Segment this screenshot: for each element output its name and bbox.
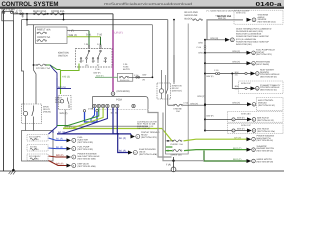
svg-text:B/L (F): B/L (F) <box>56 146 63 149</box>
wire blue from pin 94.5 <box>91 108 95 122</box>
svg-text:SWITCH: SWITCH <box>58 54 68 57</box>
junction r5-r6 <box>231 73 233 75</box>
wire purge feed <box>166 140 174 142</box>
svg-text:(SECTION F/P1): (SECTION F/P1) <box>78 148 94 151</box>
wire W/B from smart relay to harness <box>65 110 148 127</box>
svg-text:B/R (F): B/R (F) <box>56 154 64 157</box>
EGI fuse box outline <box>22 131 54 162</box>
fuse EGI COMPR 15A dashed cell <box>27 135 48 142</box>
junction after MAIN fuse <box>47 13 49 15</box>
inline connector 10 <box>232 129 235 132</box>
svg-text:G/Y (F): G/Y (F) <box>64 125 72 128</box>
svg-text:(SECTION 08-10): (SECTION 08-10) <box>260 76 277 79</box>
svg-text:PCM: PCM <box>116 99 122 102</box>
svg-text:MAIN 100A: MAIN 100A <box>33 10 47 13</box>
svg-text:(SECTION F/P1): (SECTION F/P1) <box>78 141 94 144</box>
main relay coil wires <box>24 104 26 131</box>
svg-text:B/L (F): B/L (F) <box>56 138 63 141</box>
wire r6 <box>232 74 250 89</box>
bus A drop x169.4 (to fuse block) <box>167 20 169 85</box>
wire green diagonal from fuse <box>46 65 60 70</box>
svg-text:F-01: F-01 <box>17 10 23 13</box>
svg-text:B/W (F): B/W (F) <box>191 102 199 105</box>
svg-text:THIS CIRCUIT: THIS CIRCUIT <box>137 127 151 130</box>
ground lead junction <box>172 160 174 162</box>
arrow r4 <box>247 61 252 65</box>
smart relay contact <box>68 98 70 109</box>
svg-text:PURGE 7.5A: PURGE 7.5A <box>171 143 184 146</box>
svg-text:(SECTION 04-16): (SECTION 04-16) <box>258 104 275 107</box>
main relay coil <box>23 111 27 115</box>
fuse box (upper left) outline <box>36 27 68 44</box>
svg-text:(S): (S) <box>235 73 238 76</box>
svg-text:B/W (F): B/W (F) <box>94 71 101 74</box>
svg-text:B/W: B/W <box>143 74 147 77</box>
fuse EGI S/BODY 10A dashed cell <box>27 154 48 161</box>
with ABS dashed box r8 <box>228 112 284 123</box>
inline connector r6 <box>245 87 247 89</box>
svg-text:(SECTION 09-14): (SECTION 09-14) <box>257 139 274 142</box>
left drop wire x21.5 from busA <box>22 20 24 104</box>
wire lime G/Y long horizontal <box>63 128 162 130</box>
svg-text:T (F): T (F) <box>166 164 171 167</box>
junction r5 <box>204 73 206 75</box>
svg-text:B/W (F): B/W (F) <box>207 114 214 117</box>
PCM bottom dotted edge <box>93 108 149 110</box>
left drop wire x33.5 from busB <box>34 25 37 104</box>
junction r8 <box>204 118 206 120</box>
wire r2 <box>205 39 225 41</box>
svg-text:(SECTION 01-40B): (SECTION 01-40B) <box>78 165 96 168</box>
svg-text:G/Y (F): G/Y (F) <box>234 136 241 139</box>
relay coil wires <box>161 70 163 99</box>
arrow r12 wiper <box>247 159 252 163</box>
connector D-09 circles right of smart relay <box>83 110 85 112</box>
svg-text:G/W (F): G/W (F) <box>96 75 104 78</box>
green wire connecting left into block <box>166 146 172 148</box>
wire navy drop x117.7 to row152 <box>118 134 128 153</box>
fuse ROOM 40A <box>52 13 62 15</box>
with DSC dashed box r6 <box>239 81 284 94</box>
wire row y30.6 to D-01 <box>67 30 89 32</box>
svg-text:WITH DSC: WITH DSC <box>241 82 251 85</box>
svg-text:Y/G (S): Y/G (S) <box>62 76 70 79</box>
svg-text:POWER RETRACTABLE HARDTOP: POWER RETRACTABLE HARDTOP <box>236 35 269 38</box>
svg-text:B/W (F): B/W (F) <box>207 75 214 78</box>
wire relay to engine fuse <box>168 104 173 106</box>
ignition switch contacts <box>80 50 106 63</box>
green wire row (sunroof) <box>166 150 247 151</box>
frame bottom border <box>0 170 284 173</box>
svg-text:B/L (F): B/L (F) <box>58 131 65 134</box>
arrow r6 <box>251 86 256 90</box>
svg-text:(SECTION 06-14A): (SECTION 06-14A) <box>258 21 276 24</box>
green drop wire to ignition switch x89 <box>88 31 90 49</box>
arrow r8 <box>247 117 252 121</box>
navy short horizontal y88.5 <box>57 88 71 90</box>
connector 1D at magenta end <box>111 92 115 96</box>
svg-text:(ECU) ILLUMINATION: (ECU) ILLUMINATION <box>236 38 257 41</box>
dark divider bar <box>0 7 284 9</box>
wire navy corner from fuse <box>50 65 57 78</box>
svg-text:BLOCK: BLOCK <box>185 17 194 20</box>
ignition relay contact <box>166 85 168 106</box>
noise capacitor to ground <box>21 15 23 17</box>
svg-text:(SECTION 01-40B): (SECTION 01-40B) <box>139 153 157 156</box>
svg-text:WIPER 20A: WIPER 20A <box>171 153 183 156</box>
wire navy B/L x57 down left side <box>56 78 58 127</box>
relay and main fuse block box (right) <box>166 24 189 155</box>
wire relay out to fuse box <box>33 123 35 131</box>
svg-text:B/W (F): B/W (F) <box>233 102 241 105</box>
bus wire A y19.6 <box>22 19 168 21</box>
junction busA x63 <box>63 19 65 21</box>
arrow r11 sunroof <box>247 148 252 152</box>
tap down x63 <box>63 14 65 20</box>
arrow fuel injector <box>67 138 72 142</box>
arrow r10 power window <box>247 137 252 141</box>
svg-text:(FBCM): (FBCM) <box>43 111 51 114</box>
wire engine fuse out right <box>183 104 205 106</box>
arrow r5 <box>251 72 256 76</box>
wire blue fuse out diagonal row1 <box>49 138 67 140</box>
svg-text:ENGINE: ENGINE <box>174 107 183 110</box>
svg-text:B/L (F): B/L (F) <box>119 137 126 140</box>
navy B/L horizontal y133.9 <box>57 133 131 135</box>
svg-text:Y (F): Y (F) <box>69 30 75 33</box>
svg-text:B/L (F): B/L (F) <box>119 150 126 153</box>
wire r4 <box>205 62 247 64</box>
junction at tap x27 <box>26 13 28 15</box>
arrow front oxygen sensor <box>67 147 72 151</box>
frame left border <box>2 10 5 172</box>
ignition switch SW1 box <box>76 49 113 68</box>
svg-text:(NEXT PAGE): (NEXT PAGE) <box>256 63 269 66</box>
smart relay coil <box>60 100 63 103</box>
arrow to evap solenoid <box>128 151 133 155</box>
connector pair D-01 <box>136 76 138 78</box>
junction busB drop <box>152 76 154 78</box>
junction r4 <box>204 62 206 64</box>
svg-text:MAIN: MAIN <box>43 105 49 108</box>
svg-text:B/W (F): B/W (F) <box>198 95 206 98</box>
svg-text:15A: 15A <box>176 110 180 113</box>
svg-text:1D: 1D <box>112 93 115 96</box>
main relay dashed box <box>22 104 42 124</box>
inline connector C-03 r5 <box>216 73 218 75</box>
wire blue fuse out diagonal row2 <box>49 147 67 150</box>
junction busA x27 <box>26 19 28 21</box>
svg-text:(SECTION 04-13a): (SECTION 04-13a) <box>257 130 275 133</box>
fuse ENGINE 15A <box>175 104 182 106</box>
wire navy from pin 107.4 <box>57 108 107 134</box>
ground wire down <box>173 157 175 167</box>
junction x63 <box>63 13 65 15</box>
wire navy from pin 117.3 <box>116 108 118 134</box>
svg-text:(S): (S) <box>235 88 238 91</box>
wire r9 <box>205 130 247 132</box>
svg-text:mx5unofficialservicemanualdown: mx5unofficialservicemanualdownload <box>104 2 192 6</box>
ignition relay dashed box <box>157 83 171 99</box>
arrow r7 <box>247 102 252 106</box>
green drop wire to ignition switch x100.5 <box>100 37 102 49</box>
svg-text:B/W (F): B/W (F) <box>233 50 241 53</box>
wire into room fuse from left <box>95 76 118 78</box>
svg-text:W/B (F): W/B (F) <box>60 112 68 115</box>
blue U harness under PCM <box>85 112 98 122</box>
wire r5 <box>205 73 251 75</box>
bus B drop x152.3 <box>151 25 153 78</box>
svg-text:O/RETR 5A: O/RETR 5A <box>37 36 51 39</box>
PCM connector box <box>93 97 149 110</box>
junction navy x117.7 <box>117 133 119 135</box>
wire r8 <box>205 118 247 120</box>
room fuse box <box>117 73 133 81</box>
junction r3 <box>204 52 206 54</box>
B/W trunk vertical <box>204 40 206 131</box>
svg-text:POWER RETRACTABLE HARDTOP: POWER RETRACTABLE HARDTOP <box>236 40 269 43</box>
fuse WIPER 20A <box>174 150 181 152</box>
wire room fuse out to connectors <box>129 76 152 78</box>
bus wire B y25.7 <box>27 24 152 26</box>
fuse ROOM 15A <box>121 76 128 78</box>
svg-text:(SECTION 04-15): (SECTION 04-15) <box>260 89 277 92</box>
fuse EGI INJ 15A dashed cell <box>27 145 48 152</box>
gray wire to steering angle sensor r1 <box>207 20 243 40</box>
svg-text:L/R (F): L/R (F) <box>115 32 123 35</box>
svg-text:B/LG (F): B/LG (F) <box>233 158 242 161</box>
fuse MAIN 100A <box>35 13 45 15</box>
svg-text:WITH DSC: WITH DSC <box>236 11 246 14</box>
wire navy corner x131 down <box>130 134 132 137</box>
svg-text:(F): (F) <box>143 79 146 82</box>
svg-text:ROOM 15A: ROOM 15A <box>120 79 130 82</box>
svg-text:G: G <box>253 19 255 22</box>
svg-text:GUIDE TERMINAL FOR ILLUMINATED: GUIDE TERMINAL FOR ILLUMINATED <box>236 27 272 30</box>
arrow purge solenoid <box>67 155 72 159</box>
svg-text:J: J <box>253 138 254 141</box>
wire L/R (F) magenta vertical <box>112 30 114 92</box>
svg-text:(SECTION 01-40B): (SECTION 01-40B) <box>78 157 96 160</box>
dark green wire row (wiper motor) <box>204 151 247 162</box>
gray harness path to ground <box>148 110 204 161</box>
svg-text:B/W (F): B/W (F) <box>233 61 241 64</box>
wire tap down x27 <box>26 14 28 26</box>
svg-text:WITH ABS: WITH ABS <box>241 113 251 116</box>
arrow r9 <box>247 129 252 133</box>
svg-text:RELAY: RELAY <box>43 108 51 111</box>
svg-text:(SECTION 04-13): (SECTION 04-13) <box>257 119 274 122</box>
title bar background <box>0 0 284 7</box>
svg-text:IGNITION: IGNITION <box>172 84 182 87</box>
svg-text:B/W (F): B/W (F) <box>237 128 245 131</box>
wire navy B/L thick from pin 113 <box>113 108 118 134</box>
svg-text:ACC: ACC <box>80 60 85 63</box>
arrow r3 <box>247 51 252 55</box>
fuse PURGE 7.5A <box>174 140 181 142</box>
fuse branch junction x33.5 y65 <box>33 64 35 66</box>
svg-text:B/W (F): B/W (F) <box>237 117 245 120</box>
wire dark red fuse out diagonal row4 <box>49 161 67 166</box>
smart keyless relay dashed box <box>59 96 72 110</box>
arrow r2 <box>225 38 230 42</box>
wire r7 <box>205 103 247 105</box>
PCM pin circles <box>93 104 135 107</box>
PCM pin crosses <box>93 105 134 107</box>
wire row green y36.8 <box>67 36 101 38</box>
svg-text:P/BELT 40A: P/BELT 40A <box>37 29 51 32</box>
wire battery positive y=13.8 <box>13 13 113 15</box>
svg-text:INDICATOR ILLUMINATION: INDICATOR ILLUMINATION <box>236 33 262 36</box>
battery ground bus x13.4 <box>12 21 14 170</box>
svg-text:(SECTION F/P1): (SECTION F/P1) <box>256 53 272 56</box>
connector C-04 on trunk <box>204 45 206 47</box>
arrow r1 <box>247 18 252 22</box>
svg-text:(SECTION F/P1): (SECTION F/P1) <box>141 136 157 139</box>
ignition relay coil <box>159 89 163 93</box>
svg-text:(SECTION 09-19): (SECTION 09-19) <box>257 161 274 164</box>
wire lime G/Y from pin 103.1 <box>63 108 103 129</box>
navy corner into fuse box <box>49 127 58 135</box>
inline connector 8 <box>232 118 235 121</box>
with DSC dashed box r9 <box>228 123 284 134</box>
svg-text:(SECTION 09-14): (SECTION 09-14) <box>257 150 274 153</box>
wire to ST SIG fuse <box>34 64 37 66</box>
wire dark red fuse out diagonal row3 <box>49 156 67 157</box>
r7 dashed text box 4wd <box>257 98 284 111</box>
svg-text:RELAY: RELAY <box>172 87 180 90</box>
svg-text:BLOCK: BLOCK <box>123 68 131 71</box>
green harness bracket at ignition <box>61 64 80 95</box>
svg-text:(INTERIOR): (INTERIOR) <box>117 90 130 93</box>
svg-text:INDICATOR (OK): INDICATOR (OK) <box>236 43 252 46</box>
ground hatch <box>9 171 16 174</box>
svg-text:B/R (F): B/R (F) <box>56 163 64 166</box>
svg-text:WITH DSC: WITH DSC <box>241 124 251 127</box>
wire r3 <box>205 52 247 54</box>
svg-text:ST/ SIG 7.5A: ST/ SIG 7.5A <box>36 67 50 70</box>
lime wire through fuse block going right (power window) <box>162 129 247 141</box>
svg-text:B/W (S): B/W (S) <box>218 17 226 20</box>
junction r7 <box>204 103 206 105</box>
main relay contact <box>32 106 34 123</box>
B/W trunk junction top <box>204 104 206 106</box>
wire relay feed from bus x174 <box>173 55 175 82</box>
svg-text:(SWITCH): (SWITCH) <box>172 90 182 93</box>
fuse METER 10A <box>194 19 201 21</box>
junction r2 <box>204 39 206 41</box>
wire green from pin 98.8 diagonal <box>57 108 99 126</box>
svg-text:PASSENGER AIR BAG (SRS): PASSENGER AIR BAG (SRS) <box>236 30 263 33</box>
wire wiper feed dot <box>167 150 169 152</box>
svg-text:T-05: T-05 <box>97 33 103 36</box>
wire L/R magenta main feed corner at x113 <box>112 14 114 30</box>
ground connector circle on frame <box>171 167 176 172</box>
arrow egr valve <box>67 164 72 168</box>
fuse ST SIG 7.5A <box>38 64 45 66</box>
svg-text:B/W (S): B/W (S) <box>211 37 219 40</box>
steering angle sensor dashed box r1 <box>234 10 283 24</box>
ground point on frame <box>12 169 15 172</box>
svg-text:B/LG (F): B/LG (F) <box>233 147 242 150</box>
battery B1 <box>2 11 14 21</box>
arrow to circuit opening relay <box>131 135 136 139</box>
junction r9 <box>204 130 206 132</box>
